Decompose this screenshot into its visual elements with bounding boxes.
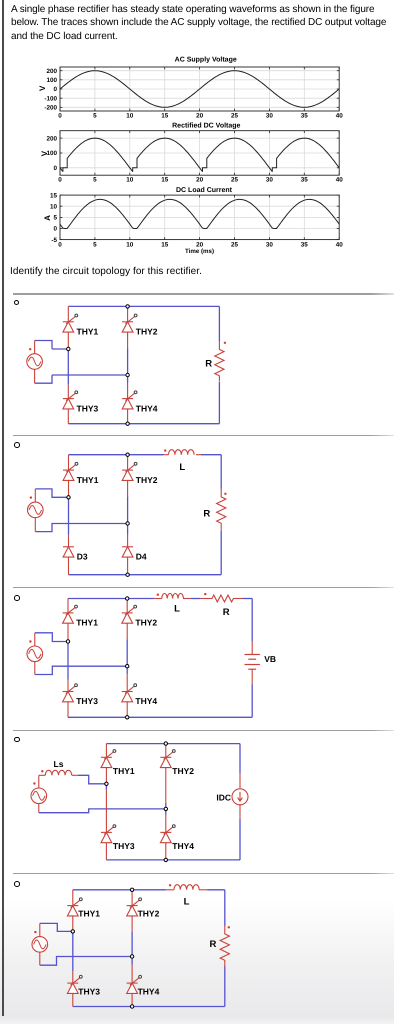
pin L right bbox=[183, 598, 191, 600]
thyristor THY2 bbox=[122, 462, 137, 480]
wire mid node stub bbox=[165, 803, 167, 815]
radio button bbox=[14, 595, 20, 601]
wire right leg lower bbox=[131, 957, 133, 965]
pin THY1 anode bbox=[72, 916, 74, 934]
pin THY1 cathode bbox=[105, 744, 107, 758]
thyristor THY1 bbox=[63, 314, 78, 332]
wire top rail bbox=[106, 743, 240, 745]
pin THY3 cathode bbox=[67, 680, 69, 692]
svg-text:THY2: THY2 bbox=[136, 327, 158, 337]
DC load current curve bbox=[60, 199, 339, 228]
resistor R bbox=[215, 341, 224, 381]
plot 2 axes bbox=[60, 131, 339, 176]
page bottom shading bbox=[0, 900, 394, 1016]
thyristor THY2 bbox=[122, 314, 137, 332]
AC source VS bbox=[32, 937, 48, 953]
plot 3 y tick labels bbox=[50, 192, 58, 244]
pin source top bbox=[34, 489, 36, 502]
inductor L bbox=[162, 594, 184, 599]
wire mid rail bbox=[52, 374, 128, 376]
wire source bottom bbox=[35, 524, 127, 532]
svg-text:D4: D4 bbox=[136, 552, 147, 562]
pin THY3 anode bbox=[72, 993, 74, 1006]
AC source VS bbox=[27, 354, 43, 370]
thyristor THY3 bbox=[67, 975, 82, 993]
node THY4 bottom junction bbox=[126, 422, 129, 425]
plot 2 y tick labels bbox=[46, 135, 57, 172]
pin source top bbox=[34, 341, 36, 354]
inductor L bbox=[174, 885, 199, 890]
thyristor THY1 bbox=[67, 898, 82, 916]
pin THY3 cathode bbox=[72, 971, 74, 983]
node source-THY1 junction bbox=[67, 347, 70, 350]
svg-text:THY4: THY4 bbox=[136, 403, 158, 413]
wire source bottom bbox=[35, 666, 127, 674]
wire bottom rail bbox=[68, 716, 252, 718]
Ls polarity dot bbox=[41, 770, 43, 772]
pin THY3 anode bbox=[105, 843, 107, 860]
pin THY4 cathode bbox=[127, 383, 129, 399]
pin source bottom bbox=[39, 952, 41, 965]
svg-text:R: R bbox=[223, 607, 230, 618]
inductor Ls bbox=[45, 770, 71, 775]
inductor L bbox=[169, 450, 195, 455]
AC source VS bbox=[28, 502, 44, 518]
pin THY2 cathode bbox=[165, 744, 167, 758]
wire battery branch bottom bbox=[251, 684, 253, 717]
wire R branch bottom bbox=[224, 966, 226, 1006]
source polarity dot bbox=[34, 931, 36, 933]
wire top rail right bbox=[207, 889, 225, 891]
svg-text:D3: D3 bbox=[77, 552, 88, 562]
wire source bottom bbox=[35, 375, 52, 383]
svg-text:IDC: IDC bbox=[216, 792, 231, 802]
node source-THY1 junction bbox=[71, 930, 74, 933]
wire top rail right bbox=[243, 598, 253, 600]
svg-text:THY4: THY4 bbox=[138, 987, 160, 997]
pin THY1 anode bbox=[68, 480, 70, 499]
plot 2 x tick labels bbox=[58, 177, 343, 184]
wire top rail left bbox=[69, 454, 164, 456]
pin L left bbox=[166, 889, 175, 891]
wire right leg upper bbox=[131, 932, 133, 957]
wire left leg bbox=[72, 933, 74, 971]
pin THY4 anode bbox=[165, 843, 167, 860]
DC current source IDC bbox=[232, 789, 248, 805]
wire top rail bbox=[68, 305, 219, 307]
source polarity dot bbox=[33, 782, 35, 784]
thyristor THY4 bbox=[160, 825, 175, 843]
R polarity dot bbox=[228, 926, 230, 928]
identify prompt bbox=[10, 266, 202, 277]
svg-text:THY1: THY1 bbox=[113, 766, 135, 776]
thyristor THY1 bbox=[63, 462, 78, 480]
pin source top bbox=[34, 633, 36, 646]
pin THY1 anode bbox=[67, 623, 69, 643]
pin source bottom bbox=[34, 518, 36, 532]
resistor R bbox=[220, 926, 229, 967]
pin THY1 anode bbox=[105, 768, 107, 786]
wire L to R bbox=[191, 598, 201, 600]
svg-text:THY3: THY3 bbox=[78, 987, 100, 997]
pin THY1 cathode bbox=[67, 599, 69, 613]
plot 3 axes bbox=[60, 195, 339, 240]
pin THY2 cathode bbox=[131, 890, 133, 906]
wire bottom rail bbox=[106, 859, 240, 861]
wire Ls to bridge bbox=[78, 775, 107, 784]
AC supply voltage curve bbox=[60, 71, 339, 108]
resistor R bbox=[211, 595, 235, 602]
L polarity dot bbox=[157, 594, 159, 596]
svg-text:VB: VB bbox=[264, 654, 276, 664]
node source-THY4 junction bbox=[126, 665, 129, 668]
node source-THY4 junction bbox=[130, 955, 133, 958]
svg-text:L: L bbox=[179, 462, 185, 473]
diode D3 bbox=[63, 547, 74, 557]
pin IDC top bbox=[239, 773, 241, 788]
R polarity dot bbox=[204, 593, 206, 595]
node source-THY1 junction bbox=[105, 782, 108, 785]
pin THY2 cathode bbox=[127, 306, 129, 321]
pin IDC bottom bbox=[239, 804, 241, 819]
separator line bbox=[13, 293, 394, 295]
svg-text:THY3: THY3 bbox=[77, 403, 99, 413]
wire R branch bottom bbox=[220, 531, 222, 575]
radio button bbox=[14, 737, 20, 743]
wire IDC branch top bbox=[239, 744, 241, 774]
thyristor THY4 bbox=[122, 684, 137, 702]
wire R branch top bbox=[224, 890, 226, 926]
wire left node stub bbox=[105, 786, 107, 790]
node THY2 top junction bbox=[130, 888, 133, 891]
pin source bottom bbox=[34, 662, 36, 675]
thyristor THY4 bbox=[127, 975, 142, 993]
pin THY4 cathode bbox=[126, 674, 128, 691]
separator line bbox=[13, 587, 394, 589]
wire right leg lower bbox=[126, 666, 128, 674]
radio button bbox=[14, 300, 20, 306]
wire R branch top bbox=[220, 455, 222, 489]
node source-D4 junction bbox=[126, 522, 129, 525]
pin source bottom bbox=[34, 369, 36, 383]
pin THY1 cathode bbox=[68, 455, 70, 470]
wire top rail right bbox=[201, 454, 221, 456]
node source-THY1 junction bbox=[67, 496, 70, 499]
pin THY4 anode bbox=[126, 702, 128, 718]
question text bbox=[11, 3, 394, 44]
plot 1 x tick labels bbox=[58, 112, 343, 119]
pin THY2 cathode bbox=[127, 455, 129, 470]
svg-text:THY1: THY1 bbox=[78, 908, 100, 918]
pin THY4 anode bbox=[131, 993, 133, 1006]
L polarity dot bbox=[164, 449, 166, 451]
svg-text:THY4: THY4 bbox=[135, 696, 157, 706]
wire source top bbox=[35, 489, 68, 497]
node D4 bottom junction bbox=[126, 573, 129, 576]
separator line bbox=[13, 730, 394, 732]
node THY4 bottom junction bbox=[126, 716, 129, 719]
pin battery bottom bbox=[251, 669, 253, 684]
thyristor THY1 bbox=[63, 605, 78, 623]
thyristor THY1 bbox=[101, 750, 116, 768]
pin D4 anode bbox=[127, 557, 129, 575]
pin R left bbox=[200, 598, 210, 600]
wire right leg upper bbox=[126, 639, 128, 666]
svg-text:THY1: THY1 bbox=[77, 475, 99, 485]
svg-text:R: R bbox=[205, 359, 212, 370]
pin THY3 anode bbox=[67, 702, 69, 718]
AC source VS bbox=[31, 788, 47, 804]
wire right leg lower bbox=[127, 375, 129, 383]
node THY4 bottom junction bbox=[130, 1005, 133, 1008]
radio button bbox=[14, 881, 20, 887]
pin battery top bbox=[251, 641, 253, 654]
wire left leg bbox=[68, 499, 70, 535]
source polarity dot bbox=[29, 640, 31, 642]
wire right leg upper bbox=[127, 348, 129, 375]
pin L right bbox=[199, 889, 207, 891]
node THY2 top junction bbox=[126, 453, 129, 456]
pin THY2 anode bbox=[131, 916, 133, 932]
wire left leg bbox=[67, 644, 69, 680]
thyristor THY2 bbox=[127, 898, 142, 916]
pin THY4 cathode bbox=[165, 815, 167, 833]
wire top rail left bbox=[73, 889, 166, 891]
svg-text:THY2: THY2 bbox=[138, 908, 160, 918]
thyristor THY2 bbox=[122, 605, 137, 623]
plot 1 axes bbox=[60, 67, 339, 111]
wire left leg bbox=[67, 351, 69, 385]
pin THY1 cathode bbox=[72, 890, 74, 906]
wire source top bbox=[35, 633, 68, 642]
wire right leg lower bbox=[127, 524, 129, 535]
thyristor THY3 bbox=[63, 684, 78, 702]
thyristor THY3 bbox=[101, 825, 116, 843]
svg-text:L: L bbox=[174, 604, 180, 615]
svg-text:THY1: THY1 bbox=[77, 327, 99, 337]
svg-text:THY2: THY2 bbox=[172, 766, 194, 776]
svg-text:Ls: Ls bbox=[54, 759, 64, 769]
svg-text:R: R bbox=[210, 939, 217, 950]
waveform figure bbox=[0, 0, 394, 258]
R polarity dot bbox=[224, 342, 226, 344]
thyristor THY3 bbox=[63, 391, 78, 409]
pin L left bbox=[164, 454, 169, 456]
plot 1 y tick labels bbox=[44, 68, 57, 112]
wire R branch top bbox=[218, 306, 220, 341]
wire top rail left bbox=[68, 598, 154, 600]
pin THY2 anode bbox=[165, 768, 167, 803]
wire R branch bottom bbox=[218, 382, 220, 424]
pin Ls right bbox=[72, 774, 78, 776]
rectified DC voltage curve bbox=[60, 138, 339, 172]
node THY4 bottom junction bbox=[164, 858, 167, 861]
svg-text:THY3: THY3 bbox=[113, 841, 135, 851]
wire source top bbox=[40, 923, 73, 931]
separator line bbox=[13, 435, 394, 437]
pin D3 cathode bbox=[68, 535, 70, 547]
wire battery branch top bbox=[251, 599, 253, 642]
source polarity dot bbox=[30, 496, 32, 498]
R polarity dot bbox=[224, 493, 226, 495]
resistor R bbox=[217, 489, 226, 531]
wire source bottom bbox=[40, 957, 132, 966]
pin THY4 cathode bbox=[131, 965, 133, 984]
pin THY3 cathode bbox=[67, 385, 69, 399]
pin L left bbox=[154, 598, 162, 600]
wire source top to bridge bbox=[52, 348, 68, 350]
svg-text:R: R bbox=[203, 509, 210, 520]
svg-text:L: L bbox=[184, 896, 190, 907]
svg-text:THY2: THY2 bbox=[136, 475, 158, 485]
L polarity dot bbox=[169, 884, 171, 886]
svg-text:THY4: THY4 bbox=[172, 841, 194, 851]
wire source bottom to mid bbox=[39, 809, 166, 813]
wire bottom rail bbox=[69, 574, 222, 576]
wire bottom rail bbox=[68, 423, 219, 425]
radio button bbox=[14, 442, 20, 448]
separator line bbox=[13, 873, 394, 875]
pin source bottom bbox=[38, 804, 40, 813]
source polarity dot bbox=[29, 348, 31, 350]
node THY2 top junction bbox=[126, 305, 129, 308]
svg-text:THY2: THY2 bbox=[135, 618, 157, 628]
pin THY1 cathode bbox=[67, 306, 69, 321]
plot 3 x tick labels bbox=[58, 242, 343, 249]
wire right leg upper bbox=[127, 496, 129, 523]
svg-text:THY1: THY1 bbox=[76, 618, 98, 628]
wire bottom rail bbox=[73, 1006, 225, 1008]
node THY2 top junction bbox=[164, 742, 167, 745]
pin THY1 anode bbox=[67, 332, 69, 351]
node THY2 top junction bbox=[126, 597, 129, 600]
pin THY3 cathode bbox=[105, 790, 107, 833]
battery VB bbox=[245, 655, 260, 670]
pin THY2 cathode bbox=[126, 599, 128, 613]
pin L right bbox=[196, 454, 201, 456]
pin THY4 anode bbox=[127, 409, 129, 424]
wire IDC branch bottom bbox=[239, 819, 241, 860]
pin R right bbox=[235, 598, 243, 600]
AC source VS bbox=[27, 646, 43, 662]
diode D4 bbox=[122, 547, 133, 557]
pin THY3 anode bbox=[67, 409, 69, 424]
pin THY2 anode bbox=[127, 480, 129, 496]
node source-THY4 junction bbox=[164, 807, 167, 810]
pin source top bbox=[39, 923, 41, 936]
pin THY2 anode bbox=[127, 332, 129, 348]
pin Ls left bbox=[39, 774, 46, 776]
pin D3 anode bbox=[68, 557, 70, 575]
pin source top bbox=[38, 775, 40, 788]
page left border bbox=[2, 0, 4, 1016]
node source-THY4 junction bbox=[126, 373, 129, 376]
svg-text:THY3: THY3 bbox=[76, 696, 98, 706]
node source-THY1 junction bbox=[66, 640, 69, 643]
wire source top bbox=[35, 341, 52, 350]
pin THY2 anode bbox=[126, 623, 128, 639]
thyristor THY4 bbox=[122, 391, 137, 409]
pin D4 cathode bbox=[127, 535, 129, 547]
thyristor THY2 bbox=[160, 750, 175, 768]
